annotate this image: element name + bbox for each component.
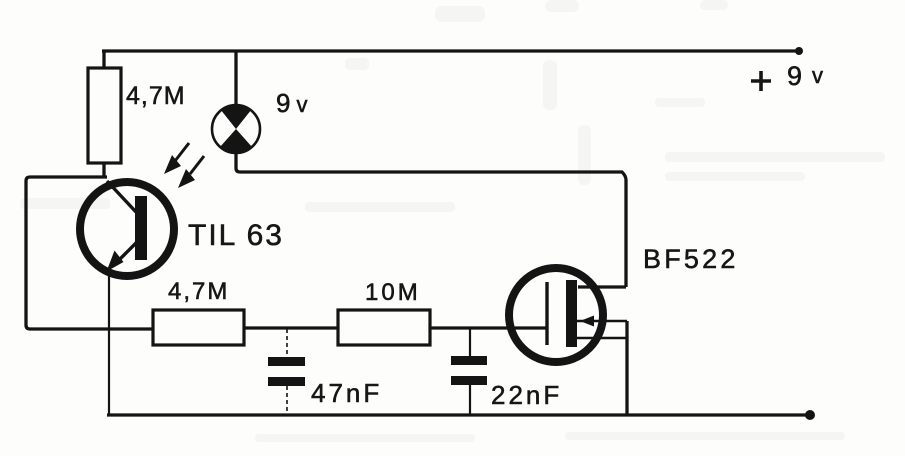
wire node horizontal (collector node) xyxy=(26,177,107,325)
svg-text:BF522: BF522 xyxy=(643,244,739,274)
capacitor C2 22nF xyxy=(451,328,487,415)
wire emitter down to bottom rail xyxy=(108,276,110,415)
node bottom-rail right end dot xyxy=(805,410,815,420)
svg-text:4,7M: 4,7M xyxy=(126,82,186,110)
wire left vertical down to row xyxy=(26,325,153,329)
svg-text:22nF: 22nF xyxy=(491,380,562,410)
wire stub rail to R1 top xyxy=(102,51,105,68)
light arrow lower xyxy=(178,156,204,188)
phototransistor Q1 TIL63 xyxy=(80,181,174,276)
wire stub R1 bottom to node xyxy=(102,163,105,177)
wire drain horizontal into Q2 xyxy=(578,285,626,288)
wire lamp bottom to drain of Q2 xyxy=(236,153,626,287)
wire bottom rail xyxy=(107,413,810,416)
wire stub rail to lamp xyxy=(234,51,237,105)
capacitor C1 47nF xyxy=(268,329,305,415)
svg-text:TIL 63: TIL 63 xyxy=(188,219,284,252)
svg-text:47nF: 47nF xyxy=(311,378,382,408)
svg-text:10M: 10M xyxy=(365,279,421,306)
resistor R1 4,7M (vertical) xyxy=(88,68,121,163)
svg-text:9: 9 xyxy=(787,61,802,91)
resistor R2 4,7M (horizontal) xyxy=(153,310,244,345)
wire source down to bottom rail xyxy=(625,321,628,415)
svg-text:v: v xyxy=(812,63,823,88)
light arrow upper xyxy=(164,143,189,174)
svg-text:4,7M: 4,7M xyxy=(168,278,229,305)
lamp LP1 9v xyxy=(212,104,260,154)
resistor R3 10M (horizontal) xyxy=(338,310,430,345)
wire top +9V rail xyxy=(102,49,800,52)
label supply + 9v xyxy=(751,61,823,91)
transistor Q2 BF522 (MOSFET) xyxy=(509,268,627,362)
wire R3 to gate of Q2 xyxy=(430,326,546,329)
node top-rail right end dot xyxy=(795,47,803,55)
wire R2 to R3 xyxy=(244,326,338,329)
